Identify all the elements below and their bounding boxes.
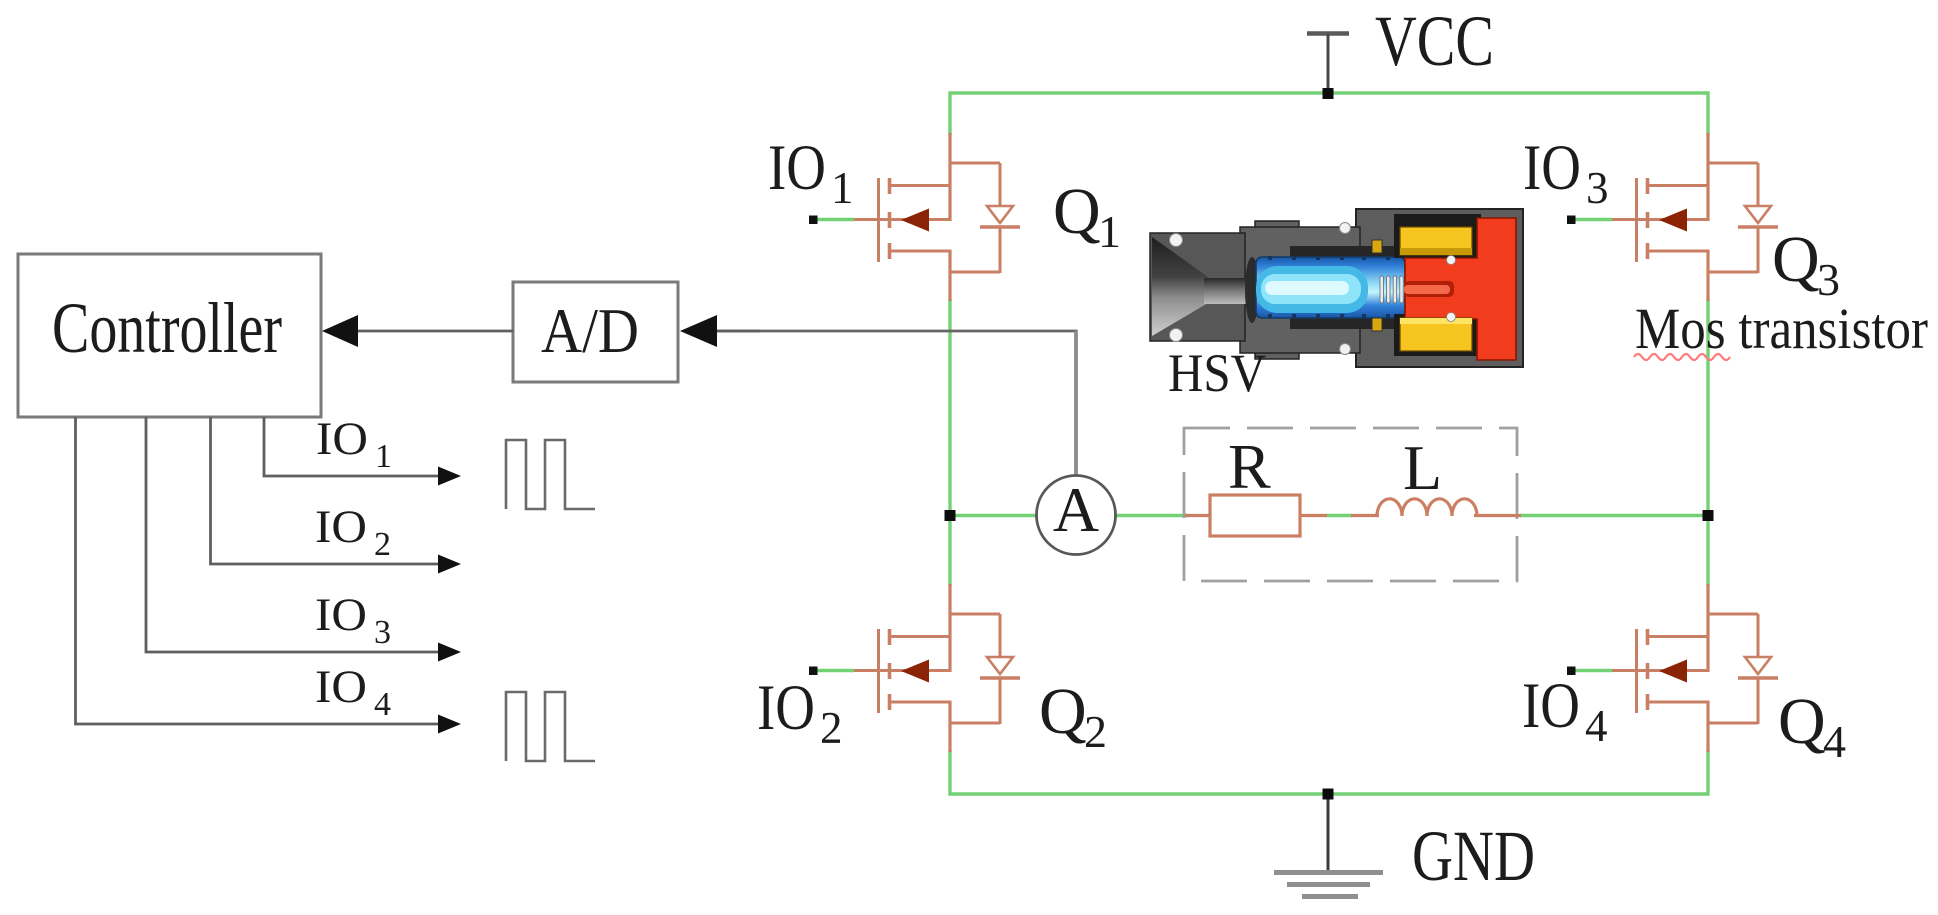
svg-text:A: A — [1053, 474, 1099, 545]
wire R to green — [1300, 514, 1327, 517]
wire green to L — [1351, 514, 1379, 517]
wire sense line into A/D — [715, 330, 760, 333]
arrowhead IO1 — [438, 467, 461, 486]
wire IO4 from controller — [76, 417, 441, 724]
wire right rail middle segment — [1706, 299, 1709, 586]
ground — [1274, 794, 1383, 897]
svg-text:1: 1 — [1098, 206, 1121, 257]
arrowhead IO2 — [438, 555, 461, 574]
svg-text:Q: Q — [1053, 175, 1101, 248]
arrowhead into A/D — [680, 315, 717, 347]
pwm waveform lower — [506, 692, 595, 761]
arrowhead IO4 — [438, 715, 461, 734]
controller U1 — [18, 254, 321, 417]
transistor Q3 — [1567, 133, 1778, 301]
wire lead into R — [1185, 514, 1212, 517]
ammeter A — [1037, 474, 1116, 555]
wire current sense tap — [717, 330, 1078, 333]
node right bridge midpoint — [1703, 510, 1714, 521]
wire load rail left of ammeter — [950, 514, 1040, 517]
arrowhead IO3 — [438, 643, 461, 662]
svg-text:4: 4 — [374, 686, 391, 723]
transistor Q2 — [809, 584, 1020, 752]
resistor R — [1210, 495, 1300, 536]
svg-text:VCC: VCC — [1375, 1, 1494, 81]
wire bottom rail GND bus — [950, 750, 1708, 794]
svg-text:Q: Q — [1772, 223, 1820, 296]
wire load box to right rail — [1520, 514, 1708, 517]
svg-text:1: 1 — [375, 438, 392, 475]
node left bridge midpoint — [945, 510, 956, 521]
svg-text:A/D: A/D — [541, 295, 639, 366]
svg-text:2: 2 — [374, 526, 391, 563]
wire IO2 from controller — [211, 417, 441, 564]
svg-text:IO: IO — [1522, 670, 1580, 742]
HSV valve illustration — [1150, 209, 1523, 367]
transistor Q4 — [1567, 584, 1778, 752]
svg-text:2: 2 — [1084, 706, 1107, 757]
transistor Q1 — [809, 133, 1020, 301]
pwm waveform upper — [506, 440, 595, 509]
wire left rail middle segment — [948, 299, 951, 586]
svg-text:Q: Q — [1039, 675, 1087, 748]
svg-text:IO: IO — [1523, 132, 1581, 204]
svg-text:HSV: HSV — [1168, 343, 1266, 403]
wire IO3 from controller — [146, 417, 440, 652]
svg-text:3: 3 — [1586, 163, 1609, 213]
VCC power symbol — [1307, 34, 1349, 91]
svg-text:1: 1 — [831, 163, 854, 213]
spellcheck underline — [1634, 354, 1730, 360]
svg-text:3: 3 — [374, 614, 391, 651]
svg-text:4: 4 — [1823, 716, 1846, 767]
svg-text:L: L — [1403, 432, 1442, 503]
svg-text:R: R — [1228, 431, 1271, 502]
wire lead out of L — [1474, 514, 1521, 517]
load dashed box — [1184, 428, 1517, 581]
node GND junction — [1323, 789, 1334, 800]
svg-text:Q: Q — [1778, 685, 1826, 758]
arrowhead into controller — [322, 315, 358, 347]
wire ammeter to load box — [1112, 514, 1187, 517]
A/D converter U2 — [513, 282, 678, 382]
svg-text:Controller: Controller — [52, 288, 282, 368]
svg-text:Mos transistor: Mos transistor — [1635, 296, 1928, 361]
node VCC junction — [1323, 88, 1334, 99]
wire top rail VCC bus — [950, 93, 1708, 135]
svg-text:IO: IO — [768, 132, 826, 204]
svg-text:GND: GND — [1412, 816, 1535, 896]
wire between R and L — [1326, 514, 1352, 517]
svg-text:IO: IO — [316, 413, 368, 465]
svg-text:4: 4 — [1585, 701, 1608, 751]
wire IO1 from controller — [264, 417, 440, 476]
svg-text:IO: IO — [757, 672, 815, 744]
svg-text:2: 2 — [820, 703, 843, 753]
wire A/D output to controller — [356, 330, 513, 333]
svg-text:IO: IO — [315, 661, 367, 713]
svg-text:IO: IO — [315, 501, 367, 553]
svg-text:IO: IO — [315, 589, 367, 641]
inductor L — [1377, 499, 1477, 516]
